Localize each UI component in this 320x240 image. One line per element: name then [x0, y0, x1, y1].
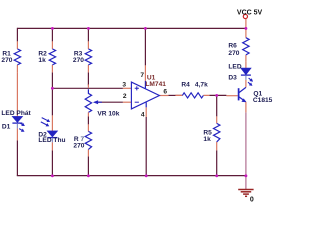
junction bottom rail x=52 [51, 174, 54, 177]
svg-text:7: 7 [140, 72, 144, 79]
potentiometer VR 10k [85, 84, 102, 116]
junction node A x=52 pin3 [51, 87, 54, 90]
junction bottom rail x=216.3 [215, 174, 218, 177]
wire node A to op-amp pin3 [52, 87, 123, 89]
svg-text:VR 10k: VR 10k [97, 111, 119, 118]
resistor R1 [14, 41, 20, 72]
svg-text:R6: R6 [228, 43, 237, 50]
wire rail x=88 R3 to VR [87, 72, 89, 85]
wire op-amp pin7 supply from top rail [144, 28, 146, 65]
resistor R2 [49, 41, 55, 72]
svg-text:1k: 1k [203, 136, 211, 143]
svg-text:2: 2 [123, 93, 127, 100]
svg-text:D3: D3 [228, 74, 237, 81]
wire left rail x=17 top segment [16, 28, 18, 42]
svg-text:6: 6 [163, 89, 167, 96]
svg-text:270: 270 [228, 50, 239, 57]
wire bottom rail ground net [17, 175, 246, 177]
transistor Q1 C1815 [226, 87, 246, 112]
svg-text:270: 270 [73, 143, 84, 150]
svg-text:D1: D1 [2, 123, 11, 130]
junction top rail x=88 [87, 27, 90, 30]
wire op-amp pin4 to bottom rail [145, 117, 147, 176]
wire rail x=88 VR to R7 [87, 116, 89, 124]
wire Q1 emitter to ground junction [245, 112, 247, 175]
svg-text:4: 4 [141, 111, 145, 118]
wire top rail VCC [17, 27, 246, 29]
wire rail x=88 R3 top [87, 28, 89, 41]
svg-text:R4: R4 [181, 82, 190, 89]
power symbol VCC 5V [243, 14, 247, 28]
op-amp U1 LM741 [123, 65, 168, 117]
LED D2 receiver [41, 115, 58, 150]
wire rail x=52 R2 to node A [51, 72, 53, 115]
resistor R5 [214, 116, 220, 150]
wire rail x=52 D2 to bottom [51, 150, 53, 175]
wire left rail x=17 bottom segment [16, 140, 18, 175]
wire node B down to R5 [216, 95, 218, 116]
junction bottom rail ground [244, 174, 247, 177]
svg-text:0: 0 [250, 196, 254, 203]
junction node B R4 base R5 [215, 94, 218, 97]
resistor R7 [85, 124, 91, 156]
resistor R4 [175, 93, 209, 98]
svg-text:VCC 5V: VCC 5V [237, 9, 263, 16]
svg-text:270: 270 [1, 57, 12, 64]
svg-text:LED: LED [228, 63, 241, 70]
wire VR wiper to op-amp pin2 [97, 101, 123, 103]
junction top rail x=245.5 VCC [244, 27, 247, 30]
junction top rail x=145 [144, 27, 147, 30]
svg-text:LM741: LM741 [145, 81, 166, 88]
svg-text:3: 3 [122, 82, 126, 89]
wire rail x=88 R7 to bottom [87, 156, 89, 175]
svg-text:270: 270 [73, 57, 84, 64]
resistor R6 [243, 28, 249, 61]
junction top rail x=52 [51, 27, 54, 30]
wire R5 to bottom rail [216, 150, 218, 175]
svg-text:4,7k: 4,7k [195, 82, 208, 89]
svg-text:LED Phát: LED Phát [1, 110, 31, 117]
junction bottom rail x=88 [87, 174, 90, 177]
LED D1 transmitter [12, 72, 25, 140]
LED D3 indicator [241, 61, 253, 87]
resistor R3 [85, 41, 91, 72]
wire R4 to node B [209, 94, 226, 96]
junction bottom rail x=145.8 [145, 174, 148, 177]
ground symbol 0 [238, 176, 253, 197]
svg-text:LED Thu: LED Thu [38, 137, 65, 144]
wire rail x=52 R2 top [51, 28, 53, 41]
svg-text:1k: 1k [38, 57, 46, 64]
svg-text:C1815: C1815 [253, 97, 273, 104]
wire op-amp output to R4 [168, 94, 182, 96]
